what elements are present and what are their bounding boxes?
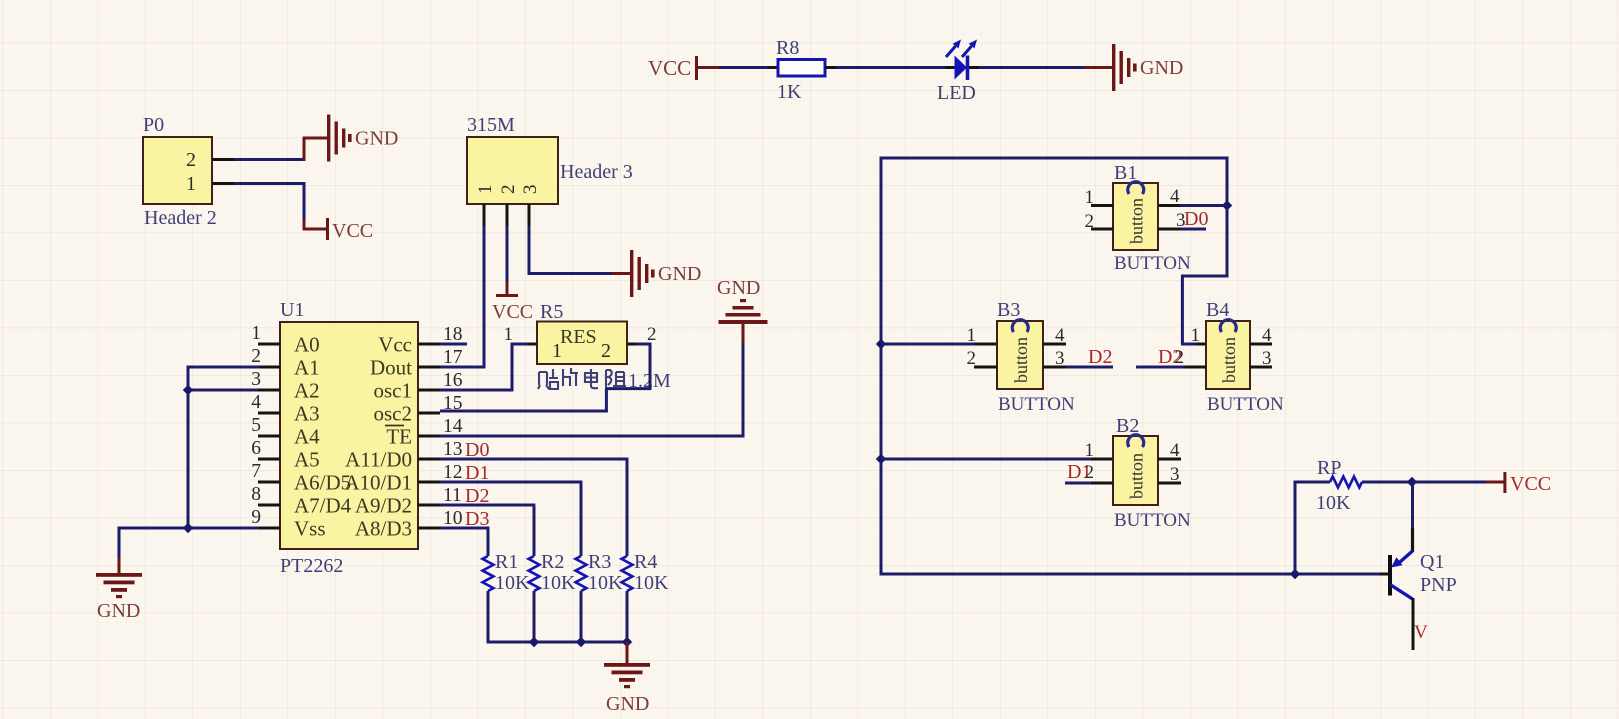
svg-text:button: button	[1127, 198, 1147, 244]
U1 right pin 13 (A11/D0)	[418, 458, 440, 461]
svg-text:R4: R4	[634, 551, 657, 573]
U1 right pin 10 (A8/D3)	[418, 527, 440, 530]
wire bus corner to RP	[1294, 481, 1297, 576]
wire R1 to gnd bus	[487, 591, 490, 643]
push-button B4	[1206, 321, 1250, 389]
svg-text:RES: RES	[560, 326, 597, 348]
svg-text:1: 1	[504, 324, 514, 345]
earth ground (TE)	[740, 299, 746, 302]
svg-text:2: 2	[1175, 347, 1185, 368]
svg-text:B1: B1	[1114, 162, 1137, 184]
junction R3 bus	[576, 637, 586, 647]
wire bus to B3 pin1	[881, 343, 975, 346]
svg-text:GND: GND	[1140, 57, 1183, 79]
svg-text:A3: A3	[294, 402, 320, 426]
svg-text:BUTTON: BUTTON	[998, 394, 1075, 415]
svg-text:PT2262: PT2262	[280, 555, 343, 577]
U1 left pin 9 (Vss)	[258, 527, 280, 530]
svg-text:B3: B3	[997, 299, 1020, 321]
svg-text:3: 3	[520, 185, 541, 195]
B3 pin 4	[1043, 343, 1066, 346]
power ground GND (315M)	[630, 250, 633, 297]
resistor R3 10K	[576, 556, 587, 591]
U1 left pin 1 (A0)	[258, 343, 280, 346]
svg-text:BUTTON: BUTTON	[1114, 253, 1191, 274]
svg-text:PNP: PNP	[1420, 574, 1457, 596]
svg-text:1: 1	[967, 325, 977, 346]
svg-text:VCC: VCC	[1510, 473, 1551, 495]
resistor R2 10K	[529, 556, 540, 591]
svg-text:VCC: VCC	[492, 301, 533, 323]
power port VCC (Q1)	[1486, 481, 1504, 484]
svg-text:A2: A2	[294, 379, 320, 403]
svg-text:BUTTON: BUTTON	[1207, 394, 1284, 415]
earth ground (R1-R4)	[604, 663, 650, 667]
junction Vss	[183, 523, 193, 533]
svg-text:4: 4	[1262, 325, 1272, 346]
IC U1 PT2262	[280, 322, 418, 549]
svg-text:osc1: osc1	[374, 379, 413, 403]
U1 left pin 2 (A1)	[258, 366, 280, 369]
svg-text:GND: GND	[355, 128, 398, 150]
svg-text:12: 12	[443, 462, 463, 483]
wire VCC to R8	[719, 66, 768, 69]
svg-text:D0: D0	[1184, 208, 1208, 230]
svg-text:BUTTON: BUTTON	[1114, 510, 1191, 531]
B3 pin 2	[974, 366, 997, 369]
svg-text:3: 3	[251, 369, 261, 390]
wire 315M pin1 to U1 pin17	[483, 204, 486, 226]
U1 right pin 14 (TE)	[418, 435, 440, 438]
wire bus to GND	[626, 642, 629, 663]
svg-text:1: 1	[1085, 440, 1095, 461]
wire bus to B2 pin1	[881, 458, 1091, 461]
wire R8 to LED	[825, 66, 836, 69]
connector P0 Header 2	[143, 137, 212, 204]
U1 left pin 5 (A4)	[258, 435, 280, 438]
svg-text:button: button	[1219, 337, 1239, 383]
svg-text:3: 3	[1170, 464, 1180, 485]
svg-text:11: 11	[443, 485, 462, 506]
svg-text:2: 2	[967, 348, 977, 369]
U1 right pin 17 (Dout)	[418, 366, 440, 369]
svg-text:R8: R8	[776, 37, 799, 59]
svg-text:R5: R5	[540, 301, 563, 323]
wire Vss to GND	[258, 527, 280, 530]
svg-text:A0: A0	[294, 333, 320, 357]
svg-text:B4: B4	[1206, 299, 1229, 321]
junction RP/VCC	[1407, 477, 1417, 487]
svg-text:R1: R1	[495, 551, 518, 573]
wire R4 to gnd bus	[626, 591, 629, 643]
svg-text:V: V	[1414, 622, 1428, 643]
svg-text:VCC: VCC	[332, 220, 373, 242]
wire LED to GND	[969, 66, 979, 69]
wire U1 pin13 to R4	[440, 458, 628, 461]
svg-text:10K: 10K	[634, 572, 669, 594]
svg-text:A7/D4: A7/D4	[294, 494, 352, 518]
wire R5 pin2 to U1 pin15	[627, 343, 637, 346]
LED D?	[955, 56, 968, 80]
B4 pin 2 + net D2	[1136, 366, 1184, 369]
svg-text:A11/D0: A11/D0	[345, 448, 412, 472]
svg-text:R3: R3	[588, 551, 611, 573]
svg-text:B2: B2	[1116, 415, 1139, 437]
svg-text:9: 9	[251, 507, 261, 528]
svg-text:10K: 10K	[541, 572, 576, 594]
svg-text:10K: 10K	[588, 572, 623, 594]
svg-text:2: 2	[1085, 211, 1095, 232]
wire bus A1/A2 to Vss	[258, 366, 280, 369]
B3 pin 3 + net D2	[1043, 366, 1066, 369]
U1 right pin 11 (A9/D2)	[418, 504, 440, 507]
U1 left pin 4 (A3)	[258, 412, 280, 415]
svg-text:R2: R2	[541, 551, 564, 573]
svg-text:6: 6	[251, 438, 261, 459]
U1 left pin 7 (A6/D5)	[258, 481, 280, 484]
svg-text:1: 1	[552, 340, 562, 362]
wire 315M pin3 to GND	[528, 204, 531, 226]
svg-text:4: 4	[1055, 325, 1065, 346]
B1 pin 2	[1091, 228, 1113, 231]
wire junction down to Q1 collector	[1411, 482, 1414, 528]
svg-text:4: 4	[251, 392, 261, 413]
svg-text:17: 17	[443, 347, 463, 368]
U1 right pin 16 (osc1)	[418, 389, 440, 392]
B1 pin 4 wire to bus	[1158, 204, 1180, 207]
svg-text:Q1: Q1	[1420, 551, 1444, 573]
svg-text:A1: A1	[294, 356, 320, 380]
pin18 stub mark	[440, 343, 467, 346]
svg-text:A8/D3: A8/D3	[355, 517, 412, 541]
svg-text:1: 1	[1085, 187, 1095, 208]
svg-text:button: button	[1011, 337, 1031, 383]
junction bus/B3	[876, 339, 886, 349]
wire top bus (B1 pin4 net)	[880, 157, 1229, 160]
svg-text:1: 1	[1191, 325, 1201, 346]
resistor R5 RES	[537, 322, 627, 365]
svg-text:Header 2: Header 2	[144, 207, 217, 229]
wire P0 pin1 to VCC	[212, 182, 234, 185]
B1 pin 1	[1091, 204, 1113, 207]
svg-text:14: 14	[443, 416, 463, 437]
svg-text:U1: U1	[280, 299, 304, 321]
svg-text:7: 7	[251, 461, 261, 482]
svg-text:2: 2	[601, 340, 611, 362]
svg-text:GND: GND	[606, 693, 649, 715]
junction R2 bus	[529, 637, 539, 647]
svg-text:1: 1	[251, 323, 261, 344]
svg-text:P0: P0	[143, 114, 164, 136]
svg-text:Vcc: Vcc	[378, 333, 412, 357]
svg-text:3: 3	[1262, 348, 1272, 369]
svg-text:A4: A4	[294, 425, 320, 449]
wire P0 pin2 to GND	[212, 158, 234, 161]
svg-text:3: 3	[1055, 348, 1065, 369]
U1 left pin 3 (A2)	[258, 389, 280, 392]
svg-text:2: 2	[186, 149, 196, 171]
svg-text:GND: GND	[717, 277, 760, 299]
U1 right pin 18 (Vcc)	[418, 343, 440, 346]
wire RP to VCC junction	[1362, 481, 1412, 484]
power port VCC (315M)	[496, 294, 518, 297]
svg-text:2: 2	[1085, 462, 1095, 483]
svg-text:18: 18	[443, 324, 463, 345]
B4 pin 3	[1250, 366, 1272, 369]
svg-text:LED: LED	[937, 82, 976, 104]
junction A2	[183, 385, 193, 395]
connector 315M Header 3	[467, 137, 558, 204]
power ground GND (P0)	[327, 115, 330, 162]
svg-text:TE: TE	[386, 425, 412, 449]
B2 pin 4	[1158, 458, 1181, 461]
svg-text:VCC: VCC	[648, 56, 691, 80]
label 贴片电阻 (chip resistor)	[538, 368, 626, 389]
svg-text:A6/D5: A6/D5	[294, 471, 351, 495]
svg-text:4: 4	[1170, 440, 1180, 461]
svg-text:Dout: Dout	[370, 356, 412, 380]
wire U1 pin12 to R3	[440, 481, 582, 484]
svg-text:D2: D2	[1088, 346, 1112, 368]
push-button B3	[997, 321, 1043, 389]
power ground GND (top right)	[1084, 66, 1112, 69]
svg-text:osc2: osc2	[374, 402, 413, 426]
B4 pin 4	[1250, 343, 1272, 346]
junction B1 pin4	[1222, 200, 1232, 210]
svg-text:1: 1	[186, 173, 196, 195]
junction RP	[1290, 569, 1300, 579]
svg-text:A5: A5	[294, 448, 320, 472]
svg-text:315M: 315M	[467, 114, 515, 136]
wire R3 to gnd bus	[580, 591, 583, 643]
svg-text:Header 3: Header 3	[560, 161, 633, 183]
resistor R8	[778, 60, 825, 77]
svg-text:16: 16	[443, 370, 463, 391]
svg-text:Vss: Vss	[294, 517, 326, 541]
power port VCC (P0)	[326, 218, 329, 240]
B2 pin 3	[1158, 482, 1181, 485]
U1 left pin 6 (A5)	[258, 458, 280, 461]
svg-text:RP: RP	[1317, 457, 1341, 479]
B1 pin 3 + net D0	[1158, 228, 1180, 231]
junction bus/B2	[876, 454, 886, 464]
earth ground (U1 Vss)	[96, 573, 142, 577]
svg-text:2: 2	[647, 324, 657, 345]
svg-text:4: 4	[1170, 186, 1180, 207]
wire to B4 pin1	[1181, 343, 1196, 346]
wire 315M pin2 to VCC	[506, 204, 509, 226]
resistor RP 10K	[1330, 477, 1362, 488]
push-button B2	[1113, 436, 1158, 505]
wire U1 pin14 (TE) to GND	[440, 435, 744, 438]
junction R4 bus	[622, 637, 632, 647]
svg-text:13: 13	[443, 439, 463, 460]
svg-text:1K: 1K	[777, 81, 802, 103]
Q1 emitter pin down	[1412, 598, 1415, 650]
B2 pin 2 + net D1	[1065, 482, 1091, 485]
U1 left pin 8 (A7/D4)	[258, 504, 280, 507]
svg-text:2: 2	[251, 346, 261, 367]
svg-text:2: 2	[498, 185, 519, 195]
svg-text:10: 10	[443, 508, 463, 529]
svg-text:8: 8	[251, 484, 261, 505]
wire bus to Q1 base	[880, 573, 883, 576]
push-button B1	[1113, 183, 1158, 250]
svg-text:GND: GND	[658, 263, 701, 285]
svg-text:GND: GND	[97, 600, 140, 622]
svg-text:10K: 10K	[495, 572, 530, 594]
gnd bus under R1-R4	[487, 641, 627, 644]
wire U1 pin11 to R2	[440, 504, 535, 507]
resistor R4 10K	[622, 556, 633, 591]
wire U1 pin16 to R5 pin1	[440, 389, 513, 392]
svg-text:A9/D2: A9/D2	[355, 494, 412, 518]
transistor Q1 PNP	[1388, 555, 1392, 596]
TE overline	[385, 425, 404, 427]
U1 right pin 15 (osc2)	[418, 412, 440, 415]
svg-text:1: 1	[475, 185, 496, 195]
svg-text:A10/D1: A10/D1	[344, 471, 412, 495]
resistor R1 10K	[483, 556, 494, 591]
wire U1 pin10 to R1	[440, 527, 489, 530]
svg-text:5: 5	[251, 415, 261, 436]
svg-text:10K: 10K	[1316, 492, 1351, 514]
svg-text:button: button	[1127, 453, 1147, 499]
U1 right pin 12 (A10/D1)	[418, 481, 440, 484]
wire R2 to gnd bus	[533, 591, 536, 643]
